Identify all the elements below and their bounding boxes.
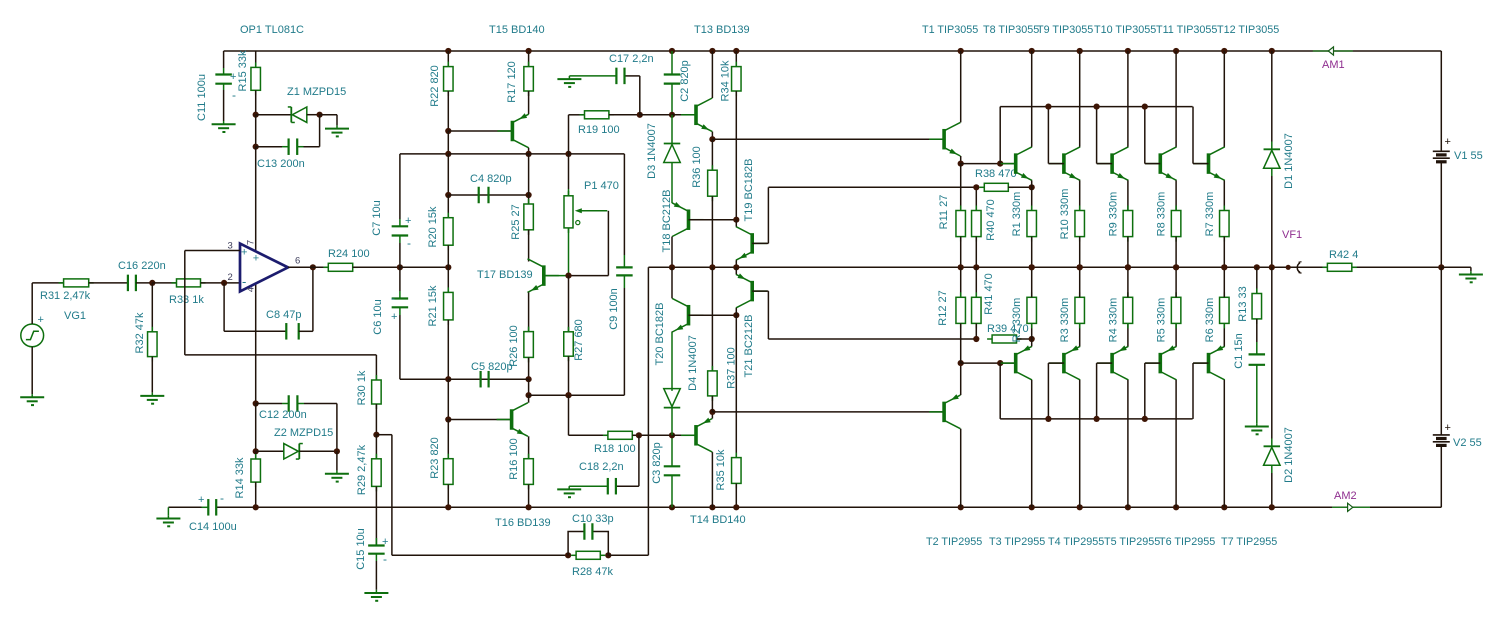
svg-text:R5 330m: R5 330m — [1156, 298, 1168, 343]
capacitor C17 — [569, 68, 624, 85]
label C8 — [266, 309, 301, 321]
resistor R34 — [732, 51, 742, 220]
label R6 — [1204, 298, 1216, 343]
svg-text:R40 470: R40 470 — [985, 199, 997, 241]
svg-text:R3 330m: R3 330m — [1059, 298, 1071, 343]
ground C18 — [557, 486, 581, 497]
label C7 — [371, 200, 383, 235]
wire col2 b — [528, 379, 530, 395]
svg-text:C3 820p: C3 820p — [651, 442, 663, 484]
node R14 rail — [253, 504, 259, 510]
resistor R32 — [148, 283, 158, 393]
node pin6 — [310, 264, 316, 270]
resistor R18 — [603, 431, 637, 439]
resistor R1 — [1027, 187, 1037, 267]
node input-R32 — [149, 280, 155, 286]
svg-text:R1 330m: R1 330m — [1011, 192, 1023, 237]
svg-text:R7 330m: R7 330m — [1204, 192, 1216, 237]
label C15 — [355, 528, 367, 570]
svg-text:D4 1N4007: D4 1N4007 — [687, 335, 699, 391]
svg-text:T21 BC212B: T21 BC212B — [743, 315, 755, 378]
node col1 C4 — [445, 192, 451, 198]
label T17 — [477, 269, 533, 281]
svg-text:R31 2,47k: R31 2,47k — [40, 290, 91, 302]
resistor R40 — [972, 187, 982, 267]
capacitor C9 — [616, 255, 633, 395]
wire Z1 to ground — [320, 115, 337, 126]
ground C11 — [212, 121, 236, 132]
node R23 rail — [445, 504, 451, 510]
ground Z2 — [325, 471, 349, 482]
wire T10 base riser — [1097, 107, 1113, 164]
label R38 — [975, 168, 1017, 180]
wire feedback node to R28 — [376, 435, 568, 556]
svg-text:R4 330m: R4 330m — [1107, 298, 1119, 343]
svg-text:Z1 MZPD15: Z1 MZPD15 — [287, 86, 346, 98]
label Z1 — [287, 86, 346, 98]
wire T8 emitter — [1031, 180, 1033, 187]
label R4 — [1107, 298, 1119, 343]
node rail T13C — [709, 48, 715, 54]
svg-text:C14 100u: C14 100u — [189, 521, 237, 533]
polarity C15 — [382, 536, 388, 566]
svg-text:R12 27: R12 27 — [937, 290, 949, 325]
wire T11 emitter — [1175, 180, 1177, 210]
svg-text:-: - — [232, 88, 236, 102]
svg-text:C12 200n: C12 200n — [259, 409, 307, 421]
svg-text:R21 15k: R21 15k — [427, 285, 439, 326]
svg-text:R29 2,47k: R29 2,47k — [356, 444, 368, 495]
label R21 — [427, 285, 439, 326]
svg-text:T10 TIP3055: T10 TIP3055 — [1094, 24, 1156, 36]
resistor R3 — [1075, 267, 1085, 328]
node rail R22 — [445, 48, 451, 54]
label P1 — [584, 180, 619, 192]
resistor R39 — [987, 335, 1021, 343]
wire lower drive line — [712, 411, 944, 413]
svg-text:C17 2,2n: C17 2,2n — [609, 53, 654, 65]
svg-text:R8 330m: R8 330m — [1156, 192, 1168, 237]
wire pin3 feedback line — [185, 354, 377, 356]
polarity C11 — [230, 71, 236, 102]
wire pin3 — [185, 251, 240, 355]
svg-text:R14 33k: R14 33k — [234, 457, 246, 498]
svg-text:-: - — [383, 552, 387, 566]
resistor R8 — [1171, 206, 1181, 268]
wire T6 base riser — [1145, 363, 1161, 419]
resistor R24 — [323, 263, 357, 271]
svg-text:T9 TIP3055: T9 TIP3055 — [1037, 24, 1093, 36]
wire T10 collector — [1127, 51, 1129, 147]
ammeter AM1 — [1313, 47, 1353, 55]
label R11 — [938, 195, 950, 230]
wire T7 emitter — [1223, 323, 1225, 346]
node rail T11C — [1173, 48, 1179, 54]
wire T16coll line — [529, 394, 625, 396]
label R37 — [726, 347, 738, 389]
svg-text:C7 10u: C7 10u — [371, 200, 383, 235]
wire V1 bottom — [1440, 163, 1442, 268]
node rail T3C — [1029, 504, 1035, 510]
wire V2 top — [1440, 267, 1442, 435]
wire T13 base — [672, 114, 696, 116]
svg-text:T7 TIP2955: T7 TIP2955 — [1221, 536, 1277, 548]
svg-text:T1 TIP3055: T1 TIP3055 — [922, 24, 978, 36]
svg-text:R32 47k: R32 47k — [134, 312, 146, 353]
label R36 — [691, 146, 703, 188]
label V2 plus — [1445, 422, 1451, 434]
wire T9 emitter — [1079, 180, 1081, 210]
label R19 — [578, 124, 620, 136]
node T20-T21 — [733, 312, 739, 318]
svg-text:+: + — [382, 536, 388, 548]
resistor R33 — [172, 279, 206, 287]
polarity C7 — [405, 215, 411, 250]
ammeter AM2 — [1332, 503, 1370, 511]
svg-text:VF1: VF1 — [1282, 229, 1302, 241]
node R36 mid — [709, 264, 715, 270]
svg-text:C18 2,2n: C18 2,2n — [579, 461, 624, 473]
node rail C2 — [669, 48, 675, 54]
node R40 mid — [973, 264, 979, 270]
node T10 mid — [1125, 264, 1131, 270]
node T4 mid — [1077, 264, 1083, 270]
label R12 — [937, 290, 949, 325]
wire T12 collector — [1223, 51, 1225, 147]
node T11 riser — [1142, 104, 1148, 110]
svg-text:+: + — [391, 311, 397, 323]
label T5 — [1104, 536, 1160, 548]
svg-text:-: - — [391, 291, 395, 305]
transistor T9 — [1049, 147, 1080, 181]
wire T9 collector — [1079, 51, 1081, 147]
capacitor C11 — [215, 51, 232, 121]
wire T18 base — [689, 219, 737, 221]
svg-text:R34 10k: R34 10k — [720, 60, 732, 101]
wire T18 collector — [671, 237, 673, 268]
wire T1 collector — [960, 51, 962, 122]
resistor R10 — [1075, 206, 1085, 268]
svg-text:Z2 MZPD15: Z2 MZPD15 — [274, 427, 333, 439]
wire Z2 right — [299, 450, 337, 452]
diode D4 — [664, 332, 681, 436]
node D2 rail — [1269, 504, 1275, 510]
ground VG1 — [20, 394, 44, 405]
node rail T10C — [1125, 48, 1131, 54]
capacitor C6 — [399, 267, 401, 291]
wire lower sense line — [768, 338, 976, 340]
label C12 — [259, 409, 307, 421]
resistor R9 — [1123, 206, 1133, 268]
transistor T21 — [736, 273, 767, 308]
label D4 — [687, 335, 699, 391]
resistor R42 — [1322, 263, 1356, 271]
node R11 mid — [958, 264, 964, 270]
label R29 — [356, 444, 368, 495]
svg-text:R25 27: R25 27 — [510, 204, 522, 239]
label D2 — [1283, 427, 1295, 483]
wire mid to ground — [1441, 267, 1471, 271]
wire T3 base line — [961, 362, 1016, 364]
svg-text:P1 470: P1 470 — [584, 180, 619, 192]
svg-text:T4 TIP2955: T4 TIP2955 — [1048, 536, 1104, 548]
svg-text:R17 120: R17 120 — [506, 61, 518, 103]
transistor T3 — [1001, 345, 1032, 380]
svg-text:D2 1N4007: D2 1N4007 — [1283, 427, 1295, 483]
label R24 — [328, 248, 370, 260]
capacitor C18 — [569, 478, 616, 495]
wire T5 base riser — [1097, 363, 1113, 419]
transistor T18 — [672, 202, 703, 237]
wire T16 emitter — [528, 436, 530, 458]
label T8 — [983, 24, 1039, 36]
label R25 — [510, 204, 522, 239]
node rail T2C — [958, 504, 964, 510]
label T11 — [1156, 24, 1217, 36]
label T14 — [690, 514, 746, 526]
wire output mid rail — [648, 266, 1441, 268]
transistor T16 — [497, 403, 528, 437]
label R42 — [1329, 249, 1358, 261]
wire T2 emitter — [960, 363, 962, 395]
battery V2 — [1433, 435, 1450, 446]
svg-text:T3 TIP2955: T3 TIP2955 — [989, 536, 1045, 548]
node rail C3 — [669, 504, 675, 510]
transistor T7 — [1194, 345, 1225, 380]
svg-text:C15 10u: C15 10u — [355, 528, 367, 570]
wire R38 right — [1008, 186, 1031, 188]
wire Z1 right — [307, 114, 320, 116]
label T4 — [1048, 536, 1104, 548]
wire upper base bus — [1000, 107, 1192, 164]
label OP1 — [240, 24, 304, 36]
node T4 riser — [1045, 416, 1051, 422]
label C3 — [651, 442, 663, 484]
battery V1 — [1433, 151, 1450, 162]
svg-text:T18 BC212B: T18 BC212B — [661, 190, 673, 253]
node rail R35 — [733, 504, 739, 510]
svg-text:+: + — [38, 314, 44, 326]
wire T21 base — [752, 291, 768, 339]
resistor R12 — [956, 267, 966, 363]
node C12 left — [253, 400, 259, 406]
wire supply column upper — [255, 115, 257, 147]
op-amp OP1 — [240, 244, 288, 292]
node R30-R29 — [373, 432, 379, 438]
resistor R35 — [732, 315, 742, 507]
wire T6 collector — [1175, 380, 1177, 507]
label V1 plus — [1445, 136, 1451, 148]
svg-text:R36 100: R36 100 — [691, 146, 703, 188]
node R18-C18 — [636, 432, 642, 438]
wire node-R33 — [152, 282, 176, 284]
node T10 riser — [1094, 104, 1100, 110]
capacitor C3 — [664, 435, 681, 507]
wire pin6 — [288, 266, 328, 268]
label T13 — [694, 24, 750, 36]
transistor T20 — [672, 298, 703, 332]
capacitor C6 body — [392, 291, 409, 379]
node T5 riser — [1094, 416, 1100, 422]
capacitor C13 — [256, 138, 320, 155]
wire supply column lower — [255, 404, 257, 452]
svg-text:R10 330m: R10 330m — [1059, 189, 1071, 240]
wire T2 collector — [960, 429, 962, 508]
wire T3 collector — [1031, 380, 1033, 507]
transistor T4 — [1049, 345, 1080, 380]
svg-text:D3 1N4007: D3 1N4007 — [646, 123, 658, 179]
node P1 top — [565, 151, 571, 157]
svg-text:T5 TIP2955: T5 TIP2955 — [1104, 536, 1160, 548]
label Z2 — [274, 427, 333, 439]
label R3 — [1059, 298, 1071, 343]
wire C6 to C5 line — [400, 378, 448, 380]
svg-text:D1 1N4007: D1 1N4007 — [1283, 133, 1295, 189]
label T16 — [495, 517, 551, 529]
node R28 right — [605, 552, 611, 558]
label C11 — [196, 74, 208, 121]
node C13 left — [253, 144, 259, 150]
wire Z1 left — [256, 114, 292, 116]
ground C17 — [557, 76, 581, 87]
wire T12 base riser — [1193, 107, 1209, 164]
svg-text:C9 100n: C9 100n — [608, 288, 620, 330]
transistor T11 — [1145, 147, 1176, 181]
capacitor C15 — [368, 538, 385, 590]
wire T20 emitter — [671, 331, 673, 333]
label C14 — [189, 521, 237, 533]
capacitor C12 — [256, 395, 337, 412]
pin 6 label — [295, 256, 300, 267]
node T2 emitter — [958, 360, 964, 366]
svg-text:R20 15k: R20 15k — [427, 206, 439, 247]
resistor R26 — [524, 327, 534, 380]
svg-text:R38 470: R38 470 — [975, 168, 1017, 180]
wire C4 line — [448, 194, 528, 196]
label C6 — [372, 299, 384, 334]
label T19 — [743, 159, 755, 222]
svg-text:R28 47k: R28 47k — [572, 566, 613, 578]
wire R19 to T13 base — [640, 114, 672, 116]
wire T16 base — [448, 419, 511, 421]
resistor R6 — [1220, 267, 1230, 328]
wire T4 emitter — [1079, 323, 1081, 346]
svg-text:C6 10u: C6 10u — [372, 299, 384, 334]
node T15-line154 — [526, 151, 532, 157]
label R28 — [572, 566, 613, 578]
node T1 emitter — [958, 161, 964, 167]
node rail T8C — [1029, 48, 1035, 54]
svg-text:T15 BD140: T15 BD140 — [489, 24, 545, 36]
svg-text:C5 820p: C5 820p — [471, 361, 513, 373]
label R40 — [985, 199, 997, 241]
svg-text:R27 680: R27 680 — [573, 319, 585, 361]
node R16 rail — [526, 504, 532, 510]
wire T13 collector — [711, 51, 713, 98]
wire R24-C7 — [353, 266, 400, 268]
source VG1 — [21, 324, 44, 347]
pin 3 label — [228, 241, 260, 265]
ground C15 — [364, 590, 388, 601]
diode D1 — [1264, 51, 1281, 267]
label R14 — [234, 457, 246, 498]
svg-text:+: + — [241, 247, 247, 259]
node T14 base — [669, 432, 675, 438]
node pin2 — [221, 280, 227, 286]
svg-text:R23 820: R23 820 — [429, 437, 441, 479]
wire R18 right — [632, 434, 672, 436]
svg-text:T19 BC182B: T19 BC182B — [743, 159, 755, 222]
ground Z1 — [325, 125, 349, 136]
label R18 — [594, 443, 636, 455]
node T16 base — [445, 416, 451, 422]
wire output to feedback riser — [647, 267, 649, 555]
wire T16 collector — [528, 395, 530, 403]
node R18 dot — [565, 392, 571, 398]
wire T15 base — [448, 130, 512, 132]
node R38 right — [1029, 184, 1035, 190]
wire C10 loop — [568, 532, 608, 556]
svg-text:AM1: AM1 — [1322, 59, 1345, 71]
transistor T15 — [497, 113, 528, 148]
node T13 base — [669, 112, 675, 118]
svg-text:V2 55: V2 55 — [1453, 437, 1482, 449]
node C4 right — [526, 192, 532, 198]
wire R31-C16 — [89, 282, 128, 284]
resistor R28 — [571, 551, 605, 559]
resistor R41 — [972, 267, 982, 339]
node T6 riser — [1142, 416, 1148, 422]
label R17 — [506, 61, 518, 103]
resistor R29 — [372, 435, 382, 546]
svg-text:C4 820p: C4 820p — [470, 173, 512, 185]
label T12 — [1217, 24, 1279, 36]
svg-text:C11 100u: C11 100u — [196, 74, 208, 121]
svg-text:-: - — [407, 236, 411, 250]
wire upper sense line — [768, 186, 976, 188]
node rail T12C — [1221, 48, 1227, 54]
node R34-T19 — [733, 217, 739, 223]
wire P1 wiper — [569, 211, 609, 276]
wire top +supply rail — [224, 50, 1442, 52]
label R22 — [429, 65, 441, 107]
wire T14 base — [672, 434, 696, 436]
label R5 — [1156, 298, 1168, 343]
wire C5 line — [448, 378, 528, 380]
wire line154 to C9 — [569, 154, 625, 255]
svg-text:T6 TIP2955: T6 TIP2955 — [1159, 536, 1215, 548]
wire VG1 bottom — [31, 347, 33, 394]
wire T19 base — [752, 187, 768, 243]
resistor R16 — [524, 454, 534, 508]
wire T17 emitter — [528, 292, 530, 331]
wire col1 a — [447, 131, 449, 154]
pin 2 label — [228, 272, 247, 289]
node T18 mid — [669, 264, 675, 270]
wire bottom -supply rail — [216, 506, 1442, 508]
node col2 C5 — [526, 376, 532, 382]
node output col1 — [445, 264, 451, 270]
label R2 — [1011, 298, 1023, 343]
node T15 base — [445, 128, 451, 134]
transistor T17 — [528, 259, 559, 293]
ground C1 — [1245, 423, 1269, 434]
label VF1 — [1282, 229, 1302, 241]
svg-text:R9 330m: R9 330m — [1107, 192, 1119, 237]
svg-text:R22 820: R22 820 — [429, 65, 441, 107]
svg-text:C16 220n: C16 220n — [118, 260, 166, 272]
svg-text:R30 1k: R30 1k — [356, 370, 368, 405]
